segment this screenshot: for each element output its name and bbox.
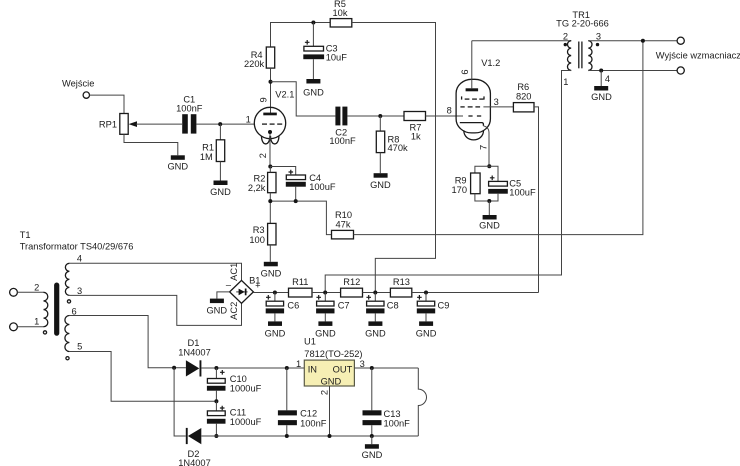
svg-text:10uF: 10uF: [326, 53, 348, 63]
ground below R3: [261, 262, 282, 279]
wire T1 terminal 2 to primary: [17, 291, 43, 293]
svg-text:1N4007: 1N4007: [178, 348, 211, 358]
capacitor C8: [365, 293, 399, 339]
wire U1 pin3 to C13 and hop wire: [354, 367, 418, 369]
resistor R9 170: [451, 173, 480, 195]
svg-text:OUT: OUT: [333, 364, 353, 374]
ground below C3: [303, 79, 324, 97]
svg-text:T1: T1: [20, 230, 31, 240]
svg-text:GND: GND: [370, 180, 391, 190]
svg-text:GND: GND: [303, 87, 324, 97]
svg-text:R3: R3: [253, 225, 265, 235]
svg-text:GND: GND: [206, 306, 227, 316]
node output terminal upper: [677, 37, 684, 44]
node junction R4/anode/C2 branch: [269, 80, 273, 84]
node junction C10 top: [214, 366, 218, 370]
wire R4 bottom to anode junction: [270, 68, 272, 113]
wire anode junction to C2 line: [271, 82, 336, 116]
svg-text:TG 2-20-666: TG 2-20-666: [556, 18, 609, 28]
node output terminal lower: [677, 67, 684, 74]
ground at B1 minus: [206, 299, 227, 316]
svg-text:100: 100: [249, 235, 265, 245]
svg-text:GND: GND: [479, 221, 500, 231]
wire D1 junction down to D2 cathode: [174, 368, 186, 436]
svg-text:GND: GND: [365, 328, 386, 338]
svg-text:GND: GND: [591, 92, 612, 102]
svg-text:V1.2: V1.2: [481, 58, 500, 68]
svg-text:RP1: RP1: [99, 120, 117, 130]
wire R13 to R6 drop: [412, 292, 539, 294]
wire R10 to output junction feedback line: [354, 41, 643, 235]
wire V1.2 pin 3 to R6: [483, 106, 513, 108]
wire V1.2 anode to TR1 primary: [472, 40, 571, 42]
svg-text:4: 4: [77, 254, 82, 264]
svg-text:3: 3: [596, 31, 601, 41]
node junction R5/C3: [311, 21, 315, 25]
wire D1 cathode to U1 input rail: [201, 367, 304, 369]
capacitor C7: [315, 293, 350, 339]
svg-text:C10: C10: [230, 374, 247, 384]
resistor R10 47k feedback: [332, 210, 354, 239]
resistor R6 820: [513, 82, 534, 112]
svg-text:AC2: AC2: [229, 302, 239, 320]
capacitor C11 1000uF: [207, 401, 262, 436]
svg-text:AC1: AC1: [229, 263, 239, 281]
ground below C5: [479, 215, 500, 231]
ground below TR1 pin4: [591, 86, 612, 102]
svg-text:100nF: 100nF: [329, 136, 356, 146]
svg-text:C7: C7: [338, 301, 350, 311]
svg-text:GND: GND: [321, 377, 342, 387]
wire input terminal to RP1 top: [90, 95, 125, 113]
svg-text:1: 1: [563, 77, 568, 87]
ground below R8: [370, 173, 391, 190]
resistor R11: [289, 277, 313, 297]
svg-text:7: 7: [478, 145, 488, 150]
svg-text:6: 6: [72, 306, 77, 316]
wire winding 3 to bridge AC2: [69, 295, 241, 325]
wire C2 to R7 and R8 junction: [347, 115, 404, 117]
svg-text:220k: 220k: [244, 59, 265, 69]
svg-text:2: 2: [320, 390, 330, 395]
wire R5 right to vertical drop toward C8 junction: [352, 23, 436, 293]
svg-text:8: 8: [447, 105, 452, 115]
svg-text:R12: R12: [343, 277, 360, 287]
svg-text:100uF: 100uF: [509, 187, 536, 197]
svg-text:100nF: 100nF: [300, 418, 327, 428]
node junction C2/R8/R7: [378, 114, 382, 118]
svg-text:R9: R9: [455, 175, 467, 185]
wire R1 to ground: [219, 162, 221, 181]
capacitor C5 100uF: [488, 176, 536, 198]
resistor R3 100: [249, 223, 276, 245]
regulator U1 7812 TO-252: [296, 337, 365, 395]
svg-text:C13: C13: [384, 409, 401, 419]
svg-text:C8: C8: [387, 301, 399, 311]
svg-text:4: 4: [605, 74, 610, 84]
svg-text:1000uF: 1000uF: [230, 417, 262, 427]
node junction C9: [424, 291, 428, 295]
ground below RP1: [167, 155, 188, 171]
node junction C8: [373, 291, 377, 295]
svg-text:C12: C12: [300, 409, 317, 419]
svg-text:GND: GND: [167, 162, 188, 172]
svg-text:C6: C6: [287, 301, 299, 311]
node junction C13 bottom ground: [370, 434, 374, 438]
node junction cathode/R2/C4: [268, 165, 272, 169]
svg-text:C11: C11: [230, 408, 246, 418]
capacitor C12 100nF: [278, 368, 327, 436]
svg-text:100nF: 100nF: [176, 104, 203, 114]
wire V2.1 cathode to R2 junction: [269, 134, 271, 167]
wire T1 terminal 1 to primary: [17, 326, 43, 328]
capacitor C6: [265, 293, 300, 339]
diode D2 1N4007: [178, 428, 211, 466]
svg-text:V2.1: V2.1: [275, 89, 294, 99]
svg-text:6: 6: [460, 69, 470, 74]
triode V2.1: [246, 89, 295, 158]
svg-text:1k: 1k: [411, 131, 421, 141]
svg-text:IN: IN: [308, 364, 317, 374]
resistor R13: [390, 277, 411, 297]
node junction D1 anode / D2 branch: [172, 366, 176, 370]
diode D1 1N4007: [178, 338, 211, 376]
svg-text:Wyjście wzmacniacza: Wyjście wzmacniacza: [656, 51, 740, 61]
svg-text:2: 2: [34, 283, 39, 293]
node junction U1 pin2 bottom: [328, 434, 332, 438]
wire winding 4 to bridge AC1: [69, 263, 241, 280]
wire R9/C5 bottom row to ground: [475, 194, 498, 201]
wire RP1 wiper to C1: [136, 123, 182, 125]
svg-text:47k: 47k: [336, 220, 351, 230]
node junction U1 pin3 / C13: [370, 366, 374, 370]
node junction C12 bottom: [285, 434, 289, 438]
svg-text:R11: R11: [292, 277, 308, 287]
transformer TR1 TG 2-20-666: [556, 10, 610, 87]
svg-text:GND: GND: [416, 328, 437, 338]
capacitor C3 10uF: [303, 23, 347, 80]
wire R9/C5 top row: [475, 166, 498, 181]
node junction output feedback: [641, 39, 645, 43]
wire R2 bottom row to R3 and C4 bottom and R10 branch: [270, 193, 331, 235]
resistor R12: [341, 277, 363, 297]
svg-text:Wejście: Wejście: [62, 79, 94, 89]
node junction C12 top: [285, 366, 289, 370]
resistor R1 1M: [200, 140, 225, 162]
svg-text:R13: R13: [393, 277, 410, 287]
node junction C10/C11 midpoint: [214, 399, 218, 403]
resistor R5 10k: [330, 0, 352, 27]
svg-text:1: 1: [246, 115, 251, 125]
wire R12 to R13: [363, 292, 391, 294]
svg-text:1: 1: [296, 359, 301, 369]
resistor R4 220k: [244, 47, 275, 69]
wire U1 pin2 to ground rail: [329, 386, 331, 436]
node junction C4 bottom: [294, 199, 298, 203]
wire RP1 bottom to ground: [124, 134, 178, 155]
svg-text:7812(TO-252): 7812(TO-252): [304, 349, 362, 359]
node junction C11 bottom: [214, 434, 218, 438]
svg-text:GND: GND: [265, 328, 286, 338]
capacitor C10 1000uF: [207, 368, 262, 401]
svg-text:GND: GND: [261, 269, 282, 279]
potentiometer RP1: [99, 114, 137, 135]
wire TR1 pin4 to output lower: [588, 70, 677, 72]
node junction R2/R3: [268, 199, 272, 203]
svg-text:100nF: 100nF: [384, 418, 411, 428]
svg-text:2,2k: 2,2k: [248, 183, 266, 193]
wire B1 plus supply rail: [253, 292, 288, 294]
wire C13 junction to ground: [371, 436, 373, 444]
wire winding 6 to D1 anode: [69, 316, 185, 368]
wire hop from pin3 down to ground rail: [418, 368, 426, 436]
ground below C13: [362, 444, 383, 460]
node junction C7: [323, 291, 327, 295]
svg-text:820: 820: [516, 91, 532, 101]
wire pin4 junction to ground: [600, 71, 602, 87]
svg-text:470k: 470k: [388, 143, 409, 153]
wire B1 minus to ground: [217, 292, 230, 299]
svg-text:GND: GND: [362, 450, 383, 460]
svg-text:2: 2: [258, 153, 268, 158]
svg-text:R2: R2: [254, 174, 266, 184]
transformer T1 TS40/29/676: [10, 230, 134, 360]
wire TR1 pin3 to output: [588, 40, 677, 42]
svg-text:1M: 1M: [200, 152, 213, 162]
svg-text:100uF: 100uF: [309, 182, 336, 192]
node junction TR1 pin4 ground: [599, 69, 603, 73]
svg-text:9: 9: [259, 97, 269, 102]
wire TR1 pin1 down to C7 junction: [325, 71, 571, 293]
svg-text:3: 3: [77, 286, 82, 296]
svg-text:Transformator TS40/29/676: Transformator TS40/29/676: [20, 242, 134, 252]
wire top rail R4 to R5 to x435 drop: [271, 23, 331, 48]
svg-text:U1: U1: [304, 337, 316, 347]
wire R8 to ground: [379, 153, 381, 174]
wire junction to ground: [488, 201, 490, 215]
resistor R7 1k: [404, 112, 426, 142]
svg-text:R10: R10: [335, 210, 352, 220]
svg-text:D1: D1: [188, 338, 200, 348]
capacitor C9: [416, 293, 450, 339]
svg-text:1000uF: 1000uF: [230, 383, 262, 393]
node junction R9/C5 bottom: [487, 199, 491, 203]
svg-text:3: 3: [494, 97, 499, 107]
capacitor C2 100nF: [329, 107, 356, 147]
wire junction down to R8: [379, 116, 381, 131]
wire winding 5 to C10/C11 midpoint: [69, 352, 216, 402]
node junction C6: [273, 291, 277, 295]
wire R6 right down to supply rail: [534, 107, 539, 293]
svg-text:GND: GND: [315, 328, 336, 338]
wire R11 to R12: [312, 292, 341, 294]
wire bottom ground rail D2 to hop: [201, 435, 418, 437]
wire C1 to V2.1 grid pin 1: [196, 123, 254, 125]
resistor R8 470k: [376, 131, 408, 153]
svg-text:170: 170: [451, 185, 467, 195]
node Wejscie input terminal: [62, 79, 94, 99]
svg-text:2: 2: [563, 31, 568, 41]
capacitor C4 100uF: [286, 170, 336, 201]
svg-text:1N4007: 1N4007: [178, 458, 211, 466]
svg-text:GND: GND: [210, 187, 231, 197]
wire R3 to ground: [269, 245, 271, 262]
bridge rectifier B1: [226, 263, 261, 320]
resistor R2 2,2k: [248, 167, 276, 194]
node junction pin7/R9/C5: [487, 164, 491, 168]
svg-text:5: 5: [77, 342, 82, 352]
node junction C1/R1/grid: [218, 122, 222, 126]
svg-text:1: 1: [34, 316, 39, 326]
svg-text:C9: C9: [438, 301, 450, 311]
svg-text:10k: 10k: [333, 8, 348, 18]
pentode V1.2: [447, 41, 501, 150]
capacitor C13 100nF: [363, 368, 411, 436]
wire junction to C4 top: [270, 167, 295, 176]
wire junction to R1: [219, 124, 221, 140]
wire R7 to V1.2 pin 8: [426, 115, 464, 117]
wire V1.2 pin 7 cathode down: [483, 126, 489, 166]
ground below R1: [210, 181, 231, 197]
svg-text:+: +: [255, 280, 260, 290]
capacitor C1: [176, 95, 203, 134]
